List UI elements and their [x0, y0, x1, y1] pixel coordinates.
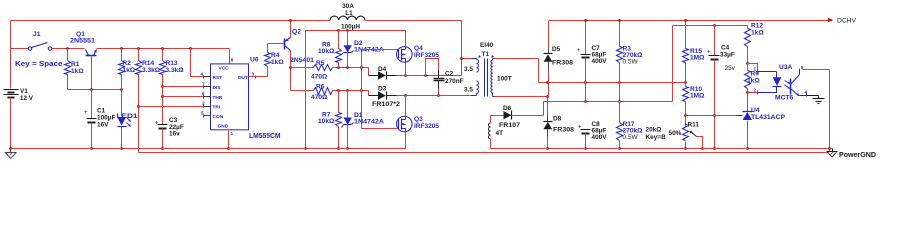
svg-text:DIS: DIS [213, 85, 222, 91]
svg-text:10kΩ: 10kΩ [318, 48, 335, 55]
wire [549, 20, 833, 22]
resistor R17 [617, 121, 644, 149]
op-amp U6 LM555CM timer [201, 57, 281, 140]
svg-text:U4: U4 [751, 107, 760, 114]
wire [52, 48, 85, 50]
wire [495, 58, 539, 60]
junction [120, 147, 123, 150]
svg-text:D8: D8 [553, 116, 562, 123]
wire [10, 49, 12, 89]
svg-text:C2: C2 [445, 71, 454, 78]
svg-text:400V: 400V [592, 58, 608, 65]
wire [406, 75, 462, 77]
svg-text:LM555CM: LM555CM [249, 133, 281, 140]
wire [405, 96, 407, 117]
svg-text:50%: 50% [669, 130, 682, 137]
svg-text:TL431ACP: TL431ACP [751, 114, 786, 121]
wire [672, 26, 674, 102]
svg-text:2: 2 [202, 101, 205, 106]
svg-text:16v: 16v [169, 131, 180, 138]
wire [290, 21, 292, 38]
junction [346, 147, 349, 150]
wire [538, 59, 540, 83]
svg-text:THR: THR [213, 95, 223, 101]
svg-text:Q4: Q4 [414, 45, 423, 52]
svg-text:R14: R14 [142, 60, 154, 67]
wire [406, 95, 472, 97]
svg-text:R2: R2 [123, 60, 132, 67]
wire [163, 86, 211, 88]
svg-text:U3A: U3A [779, 64, 793, 71]
junction [701, 147, 704, 150]
wire [491, 148, 833, 150]
svg-text:+: + [707, 50, 711, 56]
junction [546, 81, 549, 84]
svg-text:470Ω: 470Ω [311, 74, 328, 81]
capacitor C2 [426, 59, 464, 96]
junction [746, 91, 749, 94]
junction [828, 147, 831, 150]
junction [404, 74, 407, 77]
junction [746, 147, 749, 150]
junction [304, 147, 307, 150]
wire [11, 48, 29, 50]
diode D5 [544, 21, 574, 97]
svg-text:GND: GND [218, 124, 229, 130]
junction [404, 94, 407, 97]
junction [289, 19, 292, 22]
diode D6 [491, 105, 544, 129]
svg-text:+: + [155, 121, 159, 127]
svg-text:EI40: EI40 [480, 42, 494, 49]
wire [397, 95, 406, 97]
svg-text:L1: L1 [345, 10, 353, 17]
svg-text:T1: T1 [482, 51, 490, 58]
svg-text:U6: U6 [250, 57, 259, 64]
svg-text:C3: C3 [169, 117, 178, 124]
wire [495, 96, 548, 98]
junction [546, 147, 549, 150]
junction [684, 81, 687, 84]
wire [163, 96, 211, 98]
svg-text:VCC: VCC [219, 66, 230, 72]
wire [368, 68, 370, 76]
svg-text:1: 1 [231, 131, 234, 136]
ground [5, 149, 17, 159]
svg-text:3.5: 3.5 [464, 87, 473, 94]
svg-text:Key = Space: Key = Space [15, 61, 63, 68]
svg-text:R6: R6 [316, 84, 325, 91]
svg-text:3.5: 3.5 [464, 66, 473, 73]
svg-text:R1: R1 [71, 61, 80, 68]
junction [584, 100, 587, 103]
svg-text:LED1: LED1 [117, 113, 138, 120]
wire [619, 102, 621, 123]
svg-text:R4: R4 [271, 52, 280, 59]
wire [333, 67, 369, 69]
junction [618, 100, 621, 103]
transformer T1 [464, 42, 512, 97]
wire [91, 56, 93, 90]
svg-text:1MΩ: 1MΩ [690, 55, 705, 62]
resistor R8 [318, 31, 342, 68]
wire [803, 69, 830, 71]
wire [11, 148, 406, 150]
svg-text:1kΩ: 1kΩ [71, 68, 84, 75]
junction [227, 147, 230, 150]
junction [90, 88, 93, 91]
junction [584, 19, 587, 22]
svg-text:10kΩ: 10kΩ [318, 118, 335, 125]
wire [249, 67, 268, 77]
inductor L1 [330, 3, 365, 31]
resistor R6 [311, 84, 333, 102]
svg-text:33µF: 33µF [720, 52, 735, 59]
wire [539, 82, 686, 84]
svg-text:6: 6 [202, 91, 205, 96]
inductor 4T winding [489, 116, 504, 149]
junction [360, 66, 363, 69]
svg-text:0.5W: 0.5W [623, 134, 639, 141]
svg-text:D6: D6 [503, 105, 512, 112]
svg-text:IRF3205: IRF3205 [414, 52, 439, 59]
junction [161, 95, 164, 98]
wire [829, 70, 831, 153]
wire [191, 49, 211, 77]
resistor R10 [683, 83, 706, 127]
resistor R13 [160, 49, 185, 125]
svg-text:D3: D3 [378, 86, 387, 93]
wire [462, 58, 472, 60]
optocoupler U3A MCT6 [754, 64, 808, 102]
diode D4 [369, 66, 397, 80]
junction [546, 95, 549, 98]
wire [10, 98, 12, 149]
svg-text:0.5W: 0.5W [623, 59, 639, 66]
resistor R15 [683, 21, 706, 83]
capacitor C8 [578, 121, 607, 149]
junction [618, 19, 621, 22]
junction [161, 85, 164, 88]
junction [584, 81, 587, 84]
wire [11, 20, 462, 22]
battery V1 [4, 88, 34, 102]
junction [120, 47, 123, 50]
junction [337, 89, 340, 92]
svg-text:FR308: FR308 [553, 127, 574, 134]
junction [618, 81, 621, 84]
resistor R3 [617, 21, 644, 102]
zener D2 [342, 31, 385, 68]
svg-text:3.3kΩ: 3.3kΩ [142, 67, 161, 74]
svg-text:RST: RST [213, 75, 223, 81]
junction [360, 89, 363, 92]
svg-text:100µH: 100µH [341, 24, 360, 31]
junction [713, 147, 716, 150]
wire [747, 93, 749, 112]
svg-text:MCT6: MCT6 [775, 95, 793, 102]
svg-text:+: + [84, 110, 88, 116]
svg-text:C1: C1 [97, 108, 106, 115]
switch J1 [15, 31, 63, 68]
resistor R7 [318, 91, 342, 149]
svg-text:5: 5 [201, 110, 204, 115]
svg-text:100T: 100T [497, 76, 512, 83]
svg-text:470Ω: 470Ω [311, 94, 328, 101]
transistor Q4 IRF3205 [397, 45, 440, 63]
junction [346, 29, 349, 32]
svg-text:D5: D5 [552, 46, 561, 53]
junction [346, 66, 349, 69]
wire [139, 152, 830, 154]
svg-text:20kΩ: 20kΩ [646, 127, 662, 134]
wire [268, 43, 285, 45]
svg-text:4: 4 [805, 90, 808, 95]
junction [289, 66, 292, 69]
svg-text:J1: J1 [33, 31, 41, 38]
resistor R4 [265, 44, 285, 67]
svg-text:+: + [578, 125, 582, 131]
junction [66, 47, 69, 50]
svg-text:1kΩ: 1kΩ [747, 78, 760, 85]
svg-text:16V: 16V [97, 122, 109, 129]
transistor Q1 [70, 31, 97, 56]
svg-text:C4: C4 [721, 45, 730, 52]
capacitor C1 [84, 90, 115, 149]
wire [461, 21, 463, 76]
svg-text:8: 8 [231, 58, 234, 63]
svg-text:7: 7 [202, 82, 205, 87]
svg-text:R13: R13 [166, 60, 178, 67]
resistor R5 [311, 60, 333, 81]
wire [229, 132, 406, 149]
wire [397, 75, 406, 77]
junction [137, 47, 140, 50]
wire [306, 31, 406, 47]
node PowerGND [827, 149, 876, 160]
junction [90, 147, 93, 150]
wire [368, 91, 370, 96]
wire [97, 48, 230, 50]
junction [424, 74, 427, 77]
svg-text:1MΩ: 1MΩ [690, 93, 705, 100]
wire [139, 106, 211, 108]
capacitor C7 [577, 21, 607, 102]
wire [673, 25, 748, 27]
svg-text:OUT: OUT [238, 75, 248, 81]
svg-text:PowerGND: PowerGND [839, 152, 876, 159]
wire [291, 67, 314, 69]
transistor Q2 [285, 29, 315, 65]
diode D3 [369, 86, 401, 109]
resistor R2 [119, 49, 136, 90]
svg-text:3.3kΩ: 3.3kΩ [166, 67, 185, 74]
junction [137, 105, 140, 108]
shunt regulator U4 TL431ACP [737, 107, 786, 149]
svg-text:R11: R11 [688, 122, 700, 129]
wire [686, 115, 737, 117]
junction [746, 62, 749, 65]
svg-text:100µF: 100µF [97, 115, 115, 122]
junction [337, 66, 340, 69]
svg-text:1kΩ: 1kΩ [271, 59, 284, 66]
wire [10, 21, 12, 49]
svg-text:Key=B: Key=B [646, 134, 667, 141]
svg-text:IRF3205: IRF3205 [414, 123, 439, 130]
junction [618, 147, 621, 150]
wire [305, 31, 307, 149]
wire [228, 130, 230, 149]
svg-text:2N5551: 2N5551 [70, 38, 95, 45]
junction [684, 114, 687, 117]
resistor R12 [745, 23, 765, 64]
svg-text:Q3: Q3 [414, 116, 423, 123]
svg-text:270nF: 270nF [445, 78, 464, 85]
svg-text:30A: 30A [342, 3, 354, 10]
junction [189, 47, 192, 50]
svg-text:1kΩ: 1kΩ [751, 30, 764, 37]
svg-text:FR308: FR308 [552, 60, 573, 67]
svg-text:V1: V1 [20, 88, 28, 95]
svg-text:CON: CON [213, 114, 224, 120]
resistor R14 [136, 49, 161, 153]
wire [333, 90, 369, 92]
junction [337, 147, 340, 150]
junction [713, 24, 716, 27]
junction [9, 147, 12, 150]
svg-text:1: 1 [754, 67, 757, 72]
svg-text:4: 4 [201, 72, 204, 77]
svg-text:3: 3 [252, 72, 255, 77]
junction [337, 29, 340, 32]
svg-text:1kΩ: 1kΩ [123, 67, 136, 74]
svg-text:400V: 400V [592, 134, 608, 141]
svg-text:Q2: Q2 [292, 29, 301, 36]
svg-text:12 V: 12 V [20, 95, 34, 102]
wire [68, 89, 122, 91]
wire [405, 63, 407, 76]
node DCHV [828, 18, 857, 25]
resistor R1 [65, 49, 85, 90]
wire [362, 49, 399, 51]
junction [684, 147, 687, 150]
svg-text:FR107*2: FR107*2 [372, 101, 400, 108]
svg-text:4T: 4T [496, 130, 504, 137]
potentiometer R11 [646, 122, 703, 149]
junction [120, 88, 123, 91]
wire [290, 51, 292, 91]
svg-text:FR107: FR107 [499, 122, 520, 129]
svg-text:DCHV: DCHV [837, 18, 857, 25]
svg-text:1N4742A: 1N4742A [354, 119, 384, 126]
diode D8 [543, 97, 574, 149]
svg-text:TRI: TRI [213, 104, 221, 110]
wire [362, 128, 399, 130]
wire [748, 64, 758, 72]
wire [229, 49, 231, 64]
svg-text:R5: R5 [316, 60, 325, 67]
svg-text:2N5401: 2N5401 [290, 57, 314, 64]
wire [361, 50, 363, 129]
wire [544, 101, 673, 103]
junction [346, 89, 349, 92]
LED LED1 [117, 90, 138, 149]
resistor R9 [745, 64, 761, 93]
junction [584, 147, 587, 150]
transistor Q3 IRF3205 [397, 116, 440, 132]
junction [161, 147, 164, 150]
wire [748, 92, 758, 94]
wire [543, 102, 545, 116]
svg-text:D4: D4 [378, 66, 387, 73]
svg-text:R12: R12 [751, 23, 763, 30]
wire [291, 90, 314, 92]
junction [161, 47, 164, 50]
ground [807, 96, 825, 104]
svg-text:2: 2 [754, 88, 757, 93]
zener D1 [342, 91, 385, 149]
junction [460, 57, 463, 60]
capacitor C4 [707, 26, 736, 149]
junction [437, 94, 440, 97]
svg-text:25v: 25v [725, 65, 736, 72]
capacitor C3 [155, 117, 184, 149]
junction [713, 114, 716, 117]
svg-text:+: + [577, 48, 581, 54]
junction [684, 19, 687, 22]
